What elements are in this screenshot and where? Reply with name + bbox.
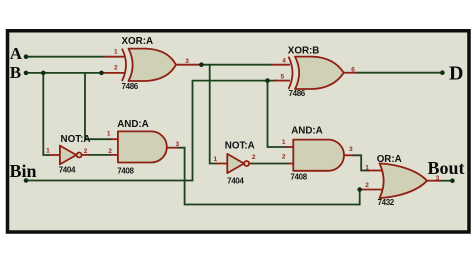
svg-text:3: 3 [176,141,180,148]
svg-text:3: 3 [185,58,189,65]
svg-text:2: 2 [108,148,112,155]
svg-text:2: 2 [252,154,256,161]
svg-text:1: 1 [114,48,118,55]
svg-text:5: 5 [281,74,285,81]
svg-text:7408: 7408 [290,173,307,182]
svg-text:2: 2 [282,154,286,161]
svg-text:1: 1 [46,147,50,154]
svg-text:OR:A: OR:A [377,154,402,165]
svg-text:3: 3 [436,175,440,182]
svg-text:Bout: Bout [428,158,465,178]
svg-text:NOT:A: NOT:A [225,141,255,152]
svg-text:A: A [10,44,23,63]
svg-text:1: 1 [365,165,369,172]
svg-text:7486: 7486 [289,89,306,98]
svg-text:4: 4 [282,58,286,65]
svg-text:AND:A: AND:A [291,126,323,137]
svg-text:1: 1 [107,131,111,138]
svg-text:1: 1 [282,139,286,146]
svg-text:XOR:B: XOR:B [288,46,320,57]
svg-text:6: 6 [351,66,355,73]
svg-text:7432: 7432 [378,198,395,207]
svg-text:2: 2 [114,64,118,71]
svg-text:D: D [449,62,463,84]
svg-text:2: 2 [365,182,369,189]
svg-text:7404: 7404 [227,176,244,185]
svg-text:7486: 7486 [122,82,139,91]
svg-text:NOT:A: NOT:A [61,134,91,145]
svg-text:3: 3 [349,146,353,153]
svg-text:7404: 7404 [59,165,76,174]
svg-text:1: 1 [214,156,218,163]
svg-text:AND:A: AND:A [117,119,149,130]
svg-text:B: B [10,63,21,82]
svg-text:2: 2 [84,148,88,155]
svg-text:Bin: Bin [10,161,37,181]
svg-text:XOR:A: XOR:A [122,36,154,47]
svg-text:7408: 7408 [117,166,134,175]
